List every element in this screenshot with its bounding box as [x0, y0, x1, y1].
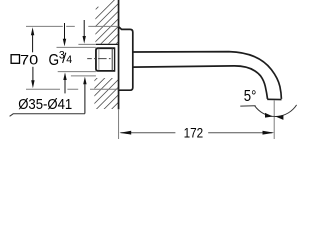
svg-text:G: G [49, 52, 60, 69]
svg-text:172: 172 [184, 126, 204, 141]
svg-text:Ø35-Ø41: Ø35-Ø41 [18, 97, 72, 113]
svg-text:5°: 5° [244, 88, 257, 105]
svg-text:70: 70 [20, 52, 39, 67]
svg-text:4: 4 [66, 54, 72, 66]
